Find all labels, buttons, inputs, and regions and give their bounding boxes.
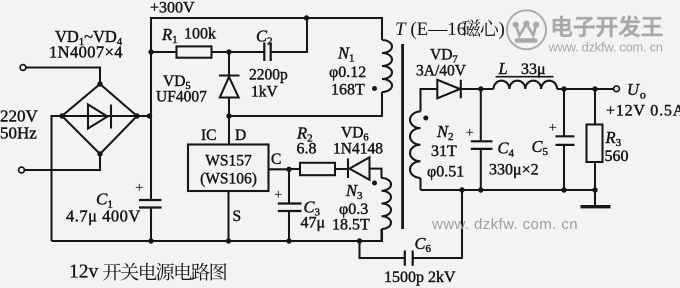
svg-text:3A/40V: 3A/40V [416, 63, 467, 80]
svg-text:L: L [498, 59, 508, 78]
svg-text:+: + [549, 120, 557, 136]
wire top input [26, 68, 101, 85]
junction R3 bottom [592, 187, 597, 192]
bridge diode symbol [88, 105, 108, 129]
svg-text:φ0.12: φ0.12 [329, 64, 366, 81]
wire N2 bottom [419, 178, 421, 190]
junction C5 bottom [561, 187, 566, 192]
svg-text:+: + [135, 180, 143, 196]
svg-text:1N4148: 1N4148 [333, 141, 383, 158]
wire C pin [269, 168, 290, 170]
diode VD7 3A/40V [437, 80, 460, 99]
svg-text:4.7μ 400V: 4.7μ 400V [66, 207, 141, 226]
wire N3 bottom [380, 229, 382, 241]
svg-text:www. dzkfw. com. cn: www. dzkfw. com. cn [431, 216, 578, 233]
wire C6 right branch [413, 190, 462, 258]
junction C1 bottom [148, 238, 153, 243]
svg-text:330μ×2: 330μ×2 [489, 162, 539, 179]
resistor R2 [300, 163, 335, 175]
junction C4 bottom [478, 187, 483, 192]
capacitor C5 [556, 136, 575, 145]
junction S to rail [226, 238, 231, 243]
svg-text:47μ: 47μ [301, 215, 326, 232]
svg-text:18.5T: 18.5T [332, 217, 370, 234]
winding N2 polarity dot [423, 116, 428, 121]
wire R1 left [151, 51, 177, 53]
junction R1 tap [148, 49, 153, 54]
svg-text:33μ: 33μ [521, 61, 546, 78]
capacitor C2 2200p [264, 43, 270, 62]
wire N2 top to VD7 [421, 89, 438, 112]
svg-text:D: D [235, 127, 246, 144]
wire VD6 to N3 [370, 169, 382, 178]
svg-text:φ0.51: φ0.51 [427, 164, 464, 181]
svg-text:+12V 0.5A: +12V 0.5A [606, 103, 680, 120]
svg-text:31T: 31T [431, 143, 457, 160]
junction D node [226, 113, 231, 118]
svg-text:168T: 168T [331, 82, 365, 99]
wire bottom rail [52, 229, 383, 241]
junction C6 primary [357, 238, 362, 243]
wire S pin [227, 191, 229, 241]
pin D wire [228, 116, 230, 145]
wire R1 right to clamp node [212, 51, 265, 53]
junction clamp node [226, 49, 231, 54]
wire C5 bottom [563, 145, 565, 190]
svg-text:C: C [271, 151, 281, 168]
wire C1 bottom to rail [150, 208, 152, 242]
resistor R1 [177, 46, 212, 57]
wire C3 top [288, 169, 290, 203]
svg-text:φ0.3: φ0.3 [339, 201, 368, 218]
svg-text:(WS106): (WS106) [200, 171, 257, 188]
winding N1 polarity dot [372, 86, 377, 91]
svg-text:): ) [499, 19, 505, 40]
op-amp / switcher IC WS157 (WS106) box [188, 145, 269, 192]
svg-text:+300V: +300V [150, 0, 195, 17]
ground [581, 205, 611, 208]
output terminal Uo [614, 86, 620, 92]
junction +300V at bridge [147, 113, 152, 118]
wire VD5 anode down [228, 98, 230, 145]
svg-text:www. dzkfw. com. cn: www. dzkfw. com. cn [548, 40, 663, 55]
wire R2 left [289, 168, 300, 170]
transformer winding N2 [410, 112, 421, 178]
junction node C [286, 167, 291, 172]
junction bridge right vertex [134, 113, 139, 118]
svg-text:50Hz: 50Hz [0, 124, 37, 143]
svg-text:S: S [233, 208, 242, 225]
watermark logo circle [507, 10, 546, 49]
svg-text:WS157: WS157 [205, 153, 252, 170]
svg-text:560: 560 [605, 148, 629, 165]
diode VD5 UF4007 [219, 74, 240, 76]
junction VD7-L-C4 [478, 86, 483, 91]
wire VD5 cathode up [228, 52, 230, 76]
wire C2 right to rail [271, 18, 307, 52]
junction C2 to rail [304, 15, 309, 20]
junction C5 top [561, 86, 566, 91]
svg-text:6.8: 6.8 [297, 141, 317, 158]
junction bridge top vertex [97, 81, 102, 86]
wire N1 bottom to D node [229, 92, 382, 116]
svg-text:UF4007: UF4007 [156, 89, 207, 106]
junction R3 top [592, 86, 597, 91]
input terminal top [20, 65, 26, 71]
wire C4 bottom [480, 149, 482, 190]
svg-text:1500p 2kV: 1500p 2kV [384, 269, 456, 286]
wire R3 top [594, 89, 596, 125]
input terminal bottom [19, 167, 25, 173]
svg-text:100k: 100k [184, 26, 216, 43]
wire +300V rail [151, 18, 382, 201]
wire secondary bottom rail [421, 189, 596, 191]
wire C3 bottom [288, 211, 290, 241]
wire R3 bottom to ground [594, 162, 596, 205]
capacitor C4 330u [471, 141, 493, 149]
capacitor C1 4.7u 400V [139, 200, 162, 208]
svg-text:+: + [274, 187, 282, 203]
svg-text:+: + [466, 125, 474, 141]
junction bridge left vertex [59, 113, 64, 118]
capacitor C6 1500p [405, 251, 413, 266]
resistor R3 [587, 125, 603, 163]
capacitor C3 47u [278, 204, 302, 212]
junction C6 secondary [459, 187, 464, 192]
junction bridge bottom vertex [97, 151, 102, 156]
svg-text:IC: IC [201, 127, 217, 144]
wire bottom input [24, 154, 100, 170]
wire C5 top [563, 89, 565, 136]
wire bridge right arm [137, 115, 151, 117]
svg-text:1kV: 1kV [251, 84, 279, 101]
wire C4 top [480, 89, 482, 141]
bridge rectifier VD1-VD4 diamond [62, 84, 137, 154]
diode VD6 1N4148 [347, 159, 349, 179]
inductor L 33u [494, 81, 558, 89]
junction C3 bottom [286, 238, 291, 243]
wire bridge left arm to bottom rail [52, 116, 63, 241]
transformer core [401, 44, 404, 229]
wire C6 left branch [360, 241, 405, 258]
wire VD7 cathode to L [462, 88, 494, 90]
transformer winding N1 [382, 40, 392, 92]
wire R2 to VD6 [335, 168, 349, 170]
transformer winding N3 [382, 178, 392, 229]
svg-text:1N4007×4: 1N4007×4 [49, 43, 123, 62]
svg-text:2200p: 2200p [249, 67, 288, 84]
svg-text:T (E—16: T (E—16 [395, 19, 466, 40]
watermark site name [553, 16, 573, 37]
svg-text:12v: 12v [69, 262, 99, 283]
watermark logo W mark [513, 21, 540, 43]
wire L right to output [557, 88, 614, 90]
winding N3 polarity dot [372, 181, 377, 186]
